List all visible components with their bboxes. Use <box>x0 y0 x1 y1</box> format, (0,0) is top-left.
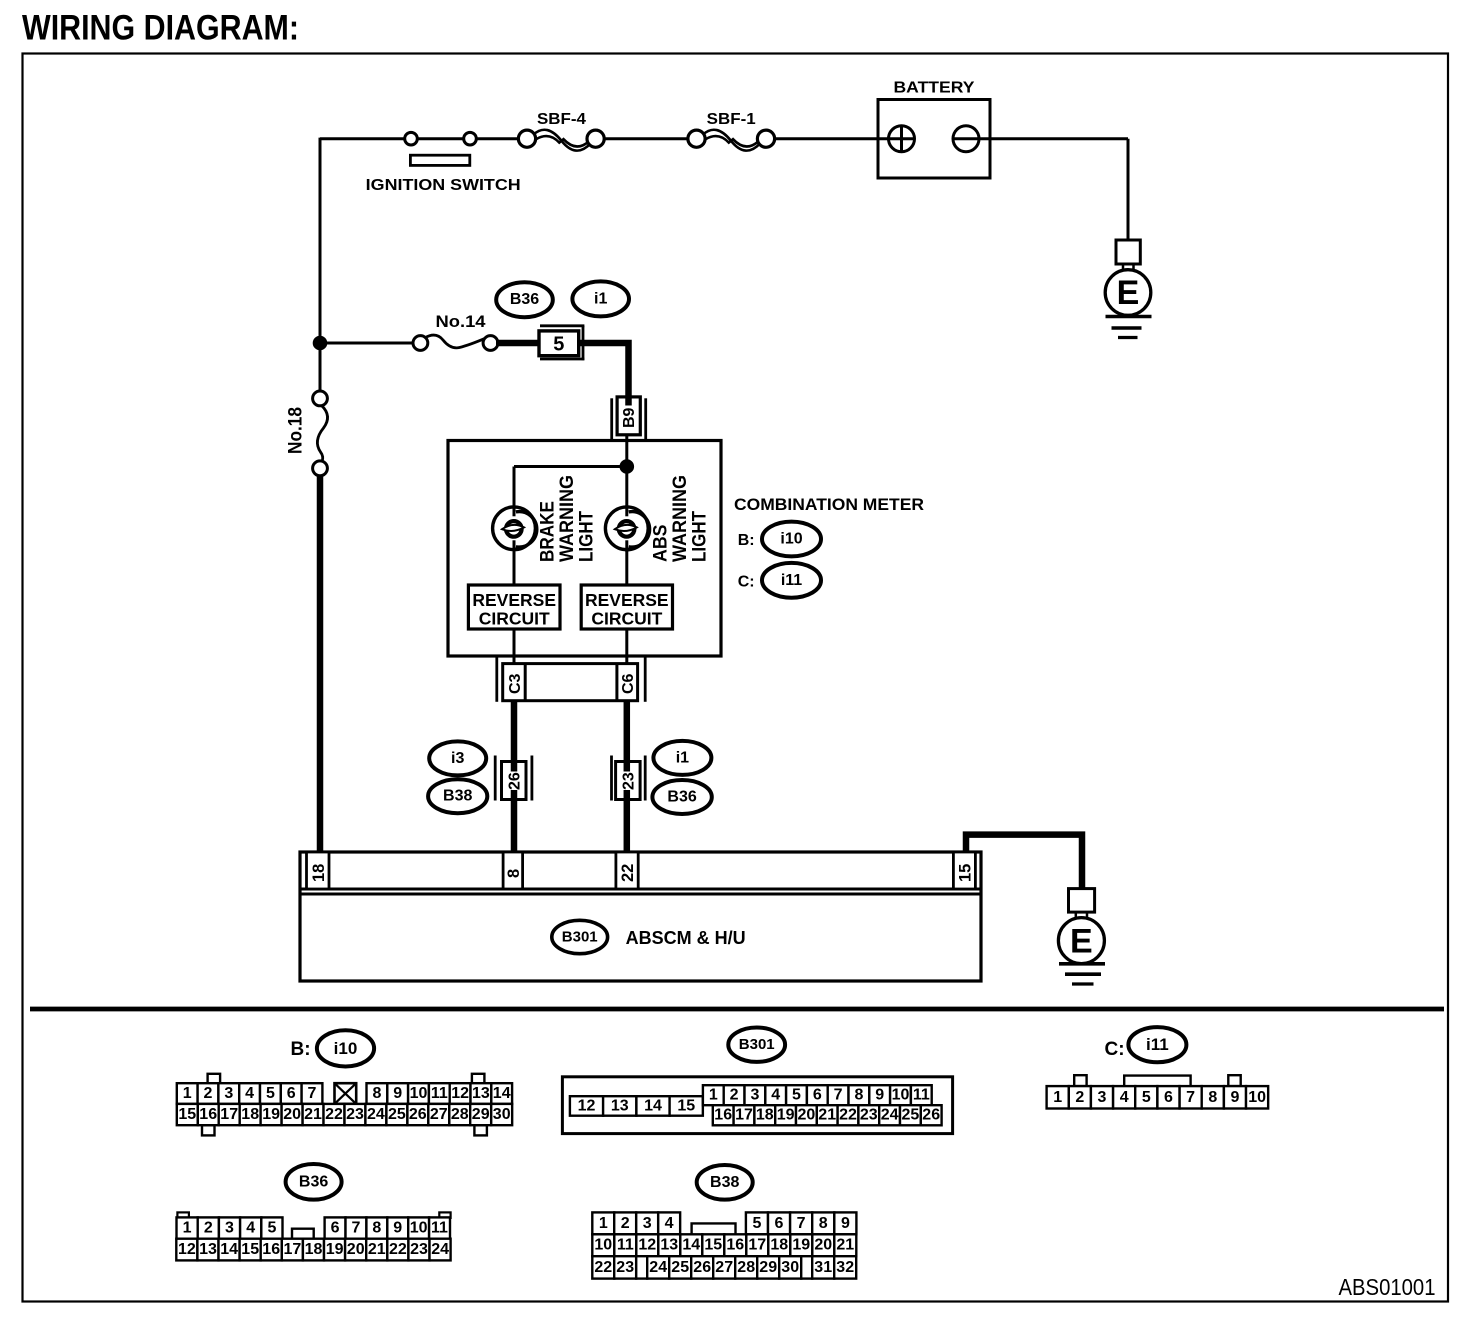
svg-text:24: 24 <box>881 1107 899 1124</box>
svg-text:ABSCM & H/U: ABSCM & H/U <box>626 928 746 948</box>
svg-text:13: 13 <box>199 1241 217 1258</box>
separator line <box>30 1007 1444 1012</box>
svg-text:15: 15 <box>677 1098 695 1115</box>
connector i10 pin grid <box>208 1074 221 1084</box>
svg-text:9: 9 <box>841 1215 850 1232</box>
svg-text:26: 26 <box>922 1107 940 1124</box>
svg-text:8: 8 <box>505 869 523 878</box>
svg-text:B36: B36 <box>667 789 696 806</box>
svg-text:20: 20 <box>283 1106 301 1123</box>
svg-text:23: 23 <box>860 1107 878 1124</box>
svg-text:i10: i10 <box>780 531 802 548</box>
svg-text:13: 13 <box>611 1098 629 1115</box>
wire C6 to connector 23 (thick) <box>624 701 631 761</box>
fuse SBF-4 link loop <box>534 130 562 143</box>
connector B36 pin grid <box>177 1212 189 1218</box>
B36 key bump <box>292 1229 314 1239</box>
wire to brake warning lamp <box>513 467 516 587</box>
svg-text:31: 31 <box>814 1259 832 1276</box>
svg-text:6: 6 <box>287 1085 296 1102</box>
fuse SBF-4 terminal left <box>518 130 535 147</box>
ABSCM pin 18 <box>307 852 330 889</box>
wire lamp branch horizontal <box>514 465 627 468</box>
svg-text:i1: i1 <box>594 290 607 307</box>
connector pin 5 (i1/B36) <box>540 324 584 327</box>
svg-text:28: 28 <box>451 1106 469 1123</box>
wire reverse box to C3 <box>513 629 516 664</box>
wire C3 to connector 26 (thick) <box>511 701 518 761</box>
wire ABSCM pin 15 to ground (thick) <box>966 835 1082 889</box>
connector id ellipse i1 (mid) <box>653 741 711 775</box>
svg-text:24: 24 <box>367 1106 385 1123</box>
svg-text:C:: C: <box>1105 1039 1125 1060</box>
battery negative terminal <box>953 126 979 152</box>
connector ellipse i10 (pinout) <box>317 1030 374 1066</box>
svg-text:18: 18 <box>241 1106 259 1123</box>
connector 23 (i1/B36) <box>610 756 613 801</box>
svg-text:15: 15 <box>178 1106 196 1123</box>
svg-text:4: 4 <box>771 1087 780 1104</box>
svg-text:B36: B36 <box>510 291 539 308</box>
svg-text:5: 5 <box>792 1087 801 1104</box>
svg-text:E: E <box>1117 274 1140 312</box>
svg-text:29: 29 <box>759 1259 777 1276</box>
svg-text:1: 1 <box>1053 1089 1062 1106</box>
svg-text:1: 1 <box>183 1085 192 1102</box>
ignition switch contact left <box>405 132 418 145</box>
wire connector 5 to B9 (thick) <box>577 343 629 399</box>
lamp ABS warning light <box>605 507 648 550</box>
svg-text:B:: B: <box>291 1039 311 1060</box>
svg-text:10: 10 <box>594 1237 612 1254</box>
svg-text:B:: B: <box>738 532 755 549</box>
svg-text:24: 24 <box>649 1259 667 1276</box>
svg-text:22: 22 <box>619 864 637 882</box>
svg-text:22: 22 <box>325 1106 343 1123</box>
svg-text:12: 12 <box>451 1085 469 1102</box>
fuse No.18 <box>317 406 327 462</box>
wire No.14 to connector 5 (thick) <box>496 340 541 347</box>
svg-text:C:: C: <box>738 574 755 591</box>
ground E (ABSCM) <box>1069 889 1095 913</box>
ABSCM pin 22 <box>616 852 638 889</box>
svg-text:14: 14 <box>644 1098 662 1115</box>
connector id ellipse B301 (box) <box>552 920 608 953</box>
svg-text:B36: B36 <box>299 1173 328 1190</box>
svg-text:19: 19 <box>792 1237 810 1254</box>
svg-text:6: 6 <box>813 1087 822 1104</box>
keying cell X <box>335 1083 357 1104</box>
svg-text:12: 12 <box>178 1241 196 1258</box>
svg-text:6: 6 <box>775 1215 784 1232</box>
svg-text:17: 17 <box>284 1241 302 1258</box>
connector id ellipse B36 (mid) <box>652 780 711 814</box>
ignition switch bar <box>410 155 469 165</box>
svg-text:30: 30 <box>493 1106 511 1123</box>
svg-text:7: 7 <box>834 1087 843 1104</box>
svg-text:20: 20 <box>347 1241 365 1258</box>
svg-text:21: 21 <box>368 1241 386 1258</box>
svg-text:CIRCUIT: CIRCUIT <box>479 609 550 629</box>
svg-text:16: 16 <box>262 1241 280 1258</box>
svg-text:REVERSE: REVERSE <box>472 590 556 610</box>
connector id ellipse B36 (top) <box>496 282 553 317</box>
svg-text:17: 17 <box>220 1106 238 1123</box>
svg-text:22: 22 <box>839 1107 857 1124</box>
svg-text:SBF-4: SBF-4 <box>537 111 586 128</box>
svg-text:4: 4 <box>665 1215 674 1232</box>
svg-text:9: 9 <box>393 1220 402 1237</box>
svg-text:C6: C6 <box>620 673 637 694</box>
svg-text:WIRING DIAGRAM:: WIRING DIAGRAM: <box>22 9 299 48</box>
svg-text:4: 4 <box>246 1220 255 1237</box>
svg-text:1: 1 <box>599 1215 608 1232</box>
svg-text:13: 13 <box>660 1237 678 1254</box>
svg-text:26: 26 <box>507 772 524 790</box>
wire connector 26 to ABSCM pin 8 (thick) <box>511 799 518 853</box>
svg-text:11: 11 <box>431 1085 448 1102</box>
wire vertical drop to No.18 fuse <box>319 138 322 399</box>
svg-text:5: 5 <box>266 1085 275 1102</box>
svg-text:2: 2 <box>204 1085 213 1102</box>
svg-text:23: 23 <box>410 1241 428 1258</box>
svg-text:3: 3 <box>1098 1089 1107 1106</box>
connector id ellipse i10 (meter) <box>762 522 821 557</box>
ground E (battery) <box>1116 240 1140 264</box>
svg-text:i3: i3 <box>451 750 464 767</box>
svg-text:5: 5 <box>752 1215 761 1232</box>
svg-text:9: 9 <box>393 1085 402 1102</box>
svg-text:LIGHT: LIGHT <box>689 511 710 562</box>
svg-text:ABS01001: ABS01001 <box>1339 1274 1436 1300</box>
wire to ABS warning lamp <box>625 467 628 587</box>
svg-text:26: 26 <box>693 1259 711 1276</box>
svg-text:10: 10 <box>1248 1089 1266 1106</box>
junction node in meter <box>620 460 634 474</box>
svg-text:B38: B38 <box>443 788 472 805</box>
svg-text:8: 8 <box>819 1215 828 1232</box>
svg-text:11: 11 <box>913 1087 930 1104</box>
svg-text:SBF-1: SBF-1 <box>707 111 756 128</box>
connector bar C3/C6 <box>495 657 498 702</box>
connector ellipse B36 (pinout) <box>286 1164 342 1200</box>
svg-text:18: 18 <box>305 1241 323 1258</box>
wire reverse box to C6 <box>625 629 628 664</box>
connector B9 <box>610 398 613 441</box>
svg-text:BRAKE: BRAKE <box>538 501 559 562</box>
svg-text:19: 19 <box>262 1106 280 1123</box>
svg-text:18: 18 <box>770 1237 788 1254</box>
svg-text:23: 23 <box>616 1259 634 1276</box>
svg-text:No.14: No.14 <box>436 313 487 331</box>
connector i11 pin grid <box>1074 1075 1086 1086</box>
svg-text:21: 21 <box>836 1237 854 1254</box>
svg-text:2: 2 <box>204 1220 213 1237</box>
svg-text:8: 8 <box>372 1220 381 1237</box>
svg-text:27: 27 <box>715 1259 733 1276</box>
svg-text:11: 11 <box>431 1220 448 1237</box>
svg-text:19: 19 <box>326 1241 344 1258</box>
svg-text:6: 6 <box>1164 1089 1173 1106</box>
fuse SBF-1 terminal left <box>688 130 705 147</box>
svg-text:14: 14 <box>493 1085 511 1102</box>
svg-text:i10: i10 <box>334 1039 358 1058</box>
svg-text:5: 5 <box>267 1220 276 1237</box>
svg-text:10: 10 <box>410 1220 428 1237</box>
svg-text:5: 5 <box>1142 1089 1151 1106</box>
svg-text:7: 7 <box>308 1085 317 1102</box>
svg-text:8: 8 <box>1208 1089 1217 1106</box>
svg-text:9: 9 <box>1231 1089 1240 1106</box>
svg-text:20: 20 <box>814 1237 832 1254</box>
svg-text:16: 16 <box>714 1107 732 1124</box>
connector 26 (i3/B38) <box>494 756 497 801</box>
svg-text:17: 17 <box>735 1107 753 1124</box>
svg-text:i11: i11 <box>1146 1035 1169 1054</box>
B38 key bump <box>692 1223 736 1234</box>
wire junction to fuse No.14 <box>320 342 420 345</box>
ABSCM pin 8 <box>503 852 522 889</box>
svg-text:B9: B9 <box>621 407 638 428</box>
svg-text:i1: i1 <box>676 749 689 766</box>
svg-text:4: 4 <box>1120 1089 1129 1106</box>
svg-text:18: 18 <box>756 1107 774 1124</box>
svg-text:B301: B301 <box>562 929 598 946</box>
svg-text:15: 15 <box>241 1241 259 1258</box>
svg-text:2: 2 <box>621 1215 630 1232</box>
svg-text:REVERSE: REVERSE <box>585 590 669 610</box>
svg-text:13: 13 <box>472 1085 490 1102</box>
svg-text:14: 14 <box>220 1241 238 1258</box>
svg-text:27: 27 <box>430 1106 448 1123</box>
svg-text:2: 2 <box>1075 1089 1084 1106</box>
connector id ellipse i11 (meter) <box>762 563 821 598</box>
svg-text:15: 15 <box>957 864 975 882</box>
svg-text:B301: B301 <box>739 1036 775 1053</box>
svg-text:1: 1 <box>709 1087 718 1104</box>
svg-text:4: 4 <box>245 1085 254 1102</box>
svg-text:26: 26 <box>409 1106 427 1123</box>
combination meter box <box>448 441 721 657</box>
svg-text:E: E <box>1070 923 1093 961</box>
wire No.18 to ABSCM pin 18 (thick) <box>317 461 324 852</box>
svg-text:28: 28 <box>737 1259 755 1276</box>
svg-text:11: 11 <box>617 1237 634 1254</box>
svg-text:22: 22 <box>389 1241 407 1258</box>
svg-text:29: 29 <box>472 1106 490 1123</box>
svg-text:25: 25 <box>902 1107 920 1124</box>
svg-text:WARNING: WARNING <box>557 475 578 562</box>
svg-text:23: 23 <box>621 772 638 790</box>
ABSCM pin 15 <box>953 852 975 889</box>
connector id ellipse i3 <box>429 741 486 775</box>
svg-text:WARNING: WARNING <box>670 475 691 562</box>
svg-text:3: 3 <box>224 1085 233 1102</box>
connector B38 pin grid <box>592 1212 614 1234</box>
svg-text:17: 17 <box>748 1237 766 1254</box>
svg-text:8: 8 <box>372 1085 381 1102</box>
svg-text:B38: B38 <box>710 1174 739 1191</box>
wire battery to ground E <box>953 137 1128 140</box>
connector id ellipse B38 (mid) <box>428 779 487 813</box>
svg-text:COMBINATION METER: COMBINATION METER <box>734 495 924 514</box>
fuse SBF-1 link loop <box>703 130 731 143</box>
svg-text:30: 30 <box>781 1259 799 1276</box>
svg-text:25: 25 <box>671 1259 689 1276</box>
fuse SBF-4 terminal right <box>587 130 604 147</box>
svg-text:2: 2 <box>730 1087 739 1104</box>
connector ellipse i11 (pinout) <box>1128 1027 1186 1062</box>
svg-text:7: 7 <box>1186 1089 1195 1106</box>
ABSCM & H/U box <box>300 852 981 981</box>
wire B9 into meter <box>625 435 628 467</box>
svg-text:15: 15 <box>704 1237 722 1254</box>
svg-text:7: 7 <box>797 1215 806 1232</box>
svg-text:25: 25 <box>388 1106 406 1123</box>
svg-text:32: 32 <box>836 1259 854 1276</box>
svg-text:16: 16 <box>199 1106 217 1123</box>
svg-text:3: 3 <box>643 1215 652 1232</box>
svg-text:i11: i11 <box>781 572 802 589</box>
wire connector 23 to ABSCM pin 22 (thick) <box>624 799 631 853</box>
ignition switch contact right <box>464 132 477 145</box>
svg-text:12: 12 <box>578 1098 596 1115</box>
svg-text:23: 23 <box>346 1106 364 1123</box>
wire ignition-battery top run <box>320 137 531 140</box>
junction node <box>313 336 327 350</box>
svg-text:5: 5 <box>553 334 564 356</box>
svg-text:3: 3 <box>225 1220 234 1237</box>
svg-text:21: 21 <box>818 1107 836 1124</box>
connector B301 pin grid <box>562 1077 952 1134</box>
svg-text:14: 14 <box>682 1237 700 1254</box>
connector id ellipse i1 (top) <box>572 281 629 316</box>
battery positive terminal <box>889 126 915 152</box>
reverse circuit box (brake) <box>468 585 560 629</box>
connector ellipse B301 (pinout) <box>728 1028 785 1062</box>
svg-text:20: 20 <box>798 1107 816 1124</box>
fuse No.14 <box>425 335 486 348</box>
svg-text:9: 9 <box>875 1087 884 1104</box>
svg-text:10: 10 <box>410 1085 428 1102</box>
svg-text:C3: C3 <box>507 673 524 694</box>
svg-text:24: 24 <box>431 1241 449 1258</box>
svg-text:BATTERY: BATTERY <box>894 80 975 97</box>
battery box <box>878 100 990 179</box>
lamp brake warning light <box>493 507 536 550</box>
svg-text:16: 16 <box>726 1237 744 1254</box>
svg-text:12: 12 <box>638 1237 656 1254</box>
svg-text:No.18: No.18 <box>285 407 306 454</box>
fuse SBF-1 terminal right <box>757 130 774 147</box>
svg-text:21: 21 <box>304 1106 322 1123</box>
svg-text:18: 18 <box>310 864 328 882</box>
svg-text:19: 19 <box>777 1107 795 1124</box>
svg-text:IGNITION SWITCH: IGNITION SWITCH <box>366 177 521 194</box>
svg-text:1: 1 <box>183 1220 192 1237</box>
svg-text:8: 8 <box>854 1087 863 1104</box>
svg-text:3: 3 <box>750 1087 759 1104</box>
svg-text:7: 7 <box>351 1220 360 1237</box>
connector ellipse B38 (pinout) <box>697 1165 753 1200</box>
svg-text:6: 6 <box>331 1220 340 1237</box>
svg-text:LIGHT: LIGHT <box>577 511 598 562</box>
svg-text:10: 10 <box>892 1087 910 1104</box>
svg-text:CIRCUIT: CIRCUIT <box>591 609 662 629</box>
svg-text:22: 22 <box>594 1259 612 1276</box>
svg-text:ABS: ABS <box>650 525 671 563</box>
reverse circuit box (ABS) <box>581 585 672 629</box>
